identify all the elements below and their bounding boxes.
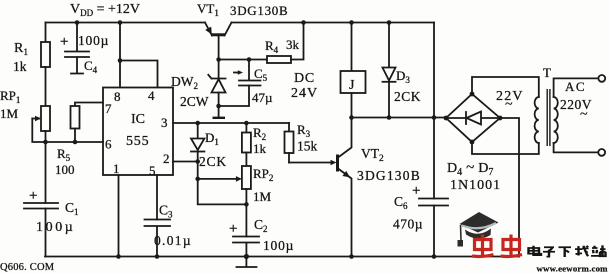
- node junction dot J top: [349, 20, 354, 25]
- capacitor C5: [219, 60, 273, 107]
- transistor Q2 VT2: [338, 118, 421, 257]
- svg-text:RP2: RP2: [253, 166, 273, 183]
- wire RP2 wiper line: [198, 176, 242, 182]
- resistor R5: [55, 106, 80, 177]
- node junction dot pin4 branch: [118, 58, 123, 63]
- node junction dot IC supply: [118, 20, 123, 25]
- node junction dot C4 top: [75, 20, 80, 25]
- capacitor C6: [393, 118, 448, 257]
- svg-text:R2: R2: [253, 125, 266, 142]
- node junction dot C2 bottom: [244, 254, 249, 259]
- wire R3 to VT2 base: [289, 160, 337, 166]
- svg-text:555: 555: [126, 134, 149, 149]
- wire top rail right of VT1: [232, 22, 435, 24]
- svg-text:+: +: [29, 188, 37, 204]
- svg-text:2: 2: [163, 151, 170, 166]
- svg-text:D3: D3: [396, 68, 410, 85]
- wire pin 5 down: [156, 175, 158, 220]
- node junction dot wiper branch: [195, 177, 200, 182]
- svg-text:+: +: [412, 183, 420, 199]
- svg-text:3DG130B: 3DG130B: [230, 3, 288, 18]
- diode bridge D4-D7: [444, 92, 503, 193]
- svg-text:3k: 3k: [286, 37, 300, 52]
- svg-text:R1: R1: [14, 41, 28, 58]
- svg-text:1: 1: [113, 161, 120, 176]
- svg-text:47µ: 47µ: [252, 90, 273, 105]
- svg-text:8: 8: [114, 89, 121, 104]
- wire left vertical top: [45, 23, 47, 43]
- node junction dot C5 top: [247, 57, 252, 62]
- wire bottom rail: [45, 256, 519, 258]
- node terminal top right: [598, 75, 605, 82]
- wire secondary right top lead: [554, 78, 599, 97]
- wire pin 3 line: [173, 122, 289, 124]
- wire RP1 down to bottom rail: [45, 131, 47, 203]
- svg-text:D1: D1: [205, 130, 219, 147]
- transistor Q1 VT1: [197, 1, 288, 60]
- wire bridge right to bottom rail: [500, 118, 519, 257]
- wire pin 2 line: [173, 161, 198, 163]
- svg-text:R4: R4: [265, 38, 279, 55]
- node junction dot C6 top: [432, 115, 437, 120]
- node junction dot left vertical crossing: [43, 140, 48, 145]
- node junction dot R2 top: [244, 121, 249, 126]
- wire pin 7 to R5: [75, 103, 103, 107]
- wire secondary right bottom lead: [554, 143, 599, 152]
- wire R5 to pin6 line: [74, 129, 76, 143]
- capacitor C2: [229, 217, 294, 257]
- node junction dot VT1 base: [216, 57, 221, 62]
- node junction dot C6 bottom: [432, 254, 437, 259]
- node junction dot VT2 collector J: [349, 115, 354, 120]
- svg-text:15k: 15k: [297, 139, 318, 154]
- svg-text:~: ~: [505, 97, 513, 112]
- svg-text:C5: C5: [254, 66, 268, 83]
- wire DW2 end bar: [213, 117, 226, 119]
- diode D1: [191, 123, 227, 179]
- node AC 220V label: [560, 79, 592, 122]
- node junction dot D3 top: [387, 20, 392, 25]
- capacitor C3: [145, 203, 192, 257]
- wire R1 to RP1: [45, 67, 47, 106]
- svg-text:3: 3: [161, 115, 168, 130]
- svg-text:C4: C4: [84, 58, 98, 75]
- wire bridge bottom to winding: [472, 142, 539, 154]
- svg-text:6: 6: [105, 137, 112, 152]
- wire VT1 base node horizontal: [219, 59, 267, 61]
- node junction dot DW2 bottom: [216, 104, 221, 109]
- node junction dot D1 top: [195, 121, 200, 126]
- node eeworm logo site name: [529, 245, 606, 257]
- capacitor C4: [60, 23, 109, 76]
- node eeworm logo red characters: [472, 235, 522, 257]
- svg-text:VT2: VT2: [361, 146, 384, 164]
- svg-text:100: 100: [55, 162, 75, 177]
- svg-text:~: ~: [580, 107, 588, 122]
- capacitor C1: [24, 188, 79, 235]
- node eeworm logo cap: [458, 212, 499, 247]
- svg-text:2CW: 2CW: [180, 94, 209, 109]
- svg-text:4: 4: [148, 88, 155, 103]
- svg-text:R5: R5: [57, 146, 71, 163]
- svg-text:24V: 24V: [291, 86, 318, 101]
- resistor R3: [285, 122, 318, 163]
- svg-text:5: 5: [149, 163, 156, 178]
- resistor R2: [242, 123, 267, 156]
- svg-text:VDD = +12V: VDD = +12V: [70, 2, 140, 18]
- wire L to RP2 bottom: [198, 179, 247, 205]
- svg-text:1k: 1k: [253, 141, 267, 156]
- node junction dot D3 bottom: [387, 115, 392, 120]
- node junction dot pin1 rail: [116, 254, 121, 259]
- svg-text:C3: C3: [159, 203, 173, 220]
- svg-text:+: +: [229, 221, 237, 237]
- svg-text:AC: AC: [565, 79, 586, 94]
- svg-text:100µ: 100µ: [263, 238, 294, 253]
- svg-text:3DG130B: 3DG130B: [357, 168, 421, 183]
- svg-text:DW2: DW2: [171, 74, 198, 91]
- wire top rail left of VT1: [46, 22, 206, 24]
- svg-text:RP1: RP1: [0, 88, 20, 105]
- node junction dot C3 rail: [155, 254, 160, 259]
- svg-text:0.01µ: 0.01µ: [154, 233, 192, 248]
- node junction dot D1 bottom: [195, 159, 200, 164]
- svg-text:Q606. COM: Q606. COM: [0, 262, 55, 273]
- svg-text:100µ: 100µ: [78, 33, 109, 48]
- svg-text:IC: IC: [131, 112, 145, 127]
- svg-text:1k: 1k: [13, 59, 27, 74]
- wire rail corner down: [433, 23, 435, 118]
- wire raw DC bus: [352, 117, 447, 119]
- svg-text:R3: R3: [297, 122, 311, 139]
- node VDD label: [70, 2, 140, 18]
- diode DW2 zener: [171, 60, 226, 117]
- resistor R1: [13, 41, 50, 74]
- svg-text:+: +: [60, 34, 68, 50]
- potentiometer RP2: [242, 153, 274, 205]
- wire pin 1 to bottom rail: [118, 175, 120, 257]
- svg-text:1N1001: 1N1001: [450, 178, 501, 193]
- svg-text:1M: 1M: [253, 189, 272, 204]
- wire IC supply feed pin 8: [119, 23, 121, 88]
- svg-text:470µ: 470µ: [393, 217, 423, 232]
- svg-text:DC: DC: [294, 71, 315, 86]
- svg-text:C2: C2: [254, 217, 268, 234]
- wire RP2 to C2: [245, 189, 247, 237]
- node junction dot R4 top: [301, 20, 306, 25]
- potentiometer RP1: [0, 88, 50, 131]
- wire bridge top to winding: [472, 77, 539, 97]
- node junction dot RP2 bottom: [244, 202, 249, 207]
- svg-text:2CK: 2CK: [199, 154, 227, 169]
- svg-text:1M: 1M: [0, 106, 19, 121]
- resistor R4: [265, 23, 304, 64]
- svg-text:T: T: [543, 65, 551, 80]
- svg-text:C1: C1: [65, 200, 79, 217]
- ground: [237, 257, 257, 268]
- node junction dot VT2 emitter rail: [349, 254, 354, 259]
- transformer T: [496, 65, 558, 146]
- svg-text:J: J: [349, 78, 355, 93]
- svg-text:2CK: 2CK: [394, 89, 421, 104]
- svg-text:C6: C6: [394, 194, 408, 211]
- svg-text:VT1: VT1: [197, 1, 219, 18]
- wire pin 4 branch: [120, 61, 158, 88]
- op-amp U1 IC 555 box: [103, 88, 173, 179]
- svg-text:7: 7: [105, 101, 112, 116]
- diode D3: [383, 23, 422, 118]
- svg-text:100µ: 100µ: [36, 220, 75, 235]
- wire pin 6 line: [32, 119, 103, 143]
- node junction dot R5 bottom: [73, 140, 78, 145]
- svg-text:www.eeworm.com: www.eeworm.com: [537, 264, 609, 274]
- relay J: [291, 23, 366, 118]
- svg-text:D4~D7: D4~D7: [447, 160, 493, 178]
- node terminal bottom right: [598, 149, 605, 156]
